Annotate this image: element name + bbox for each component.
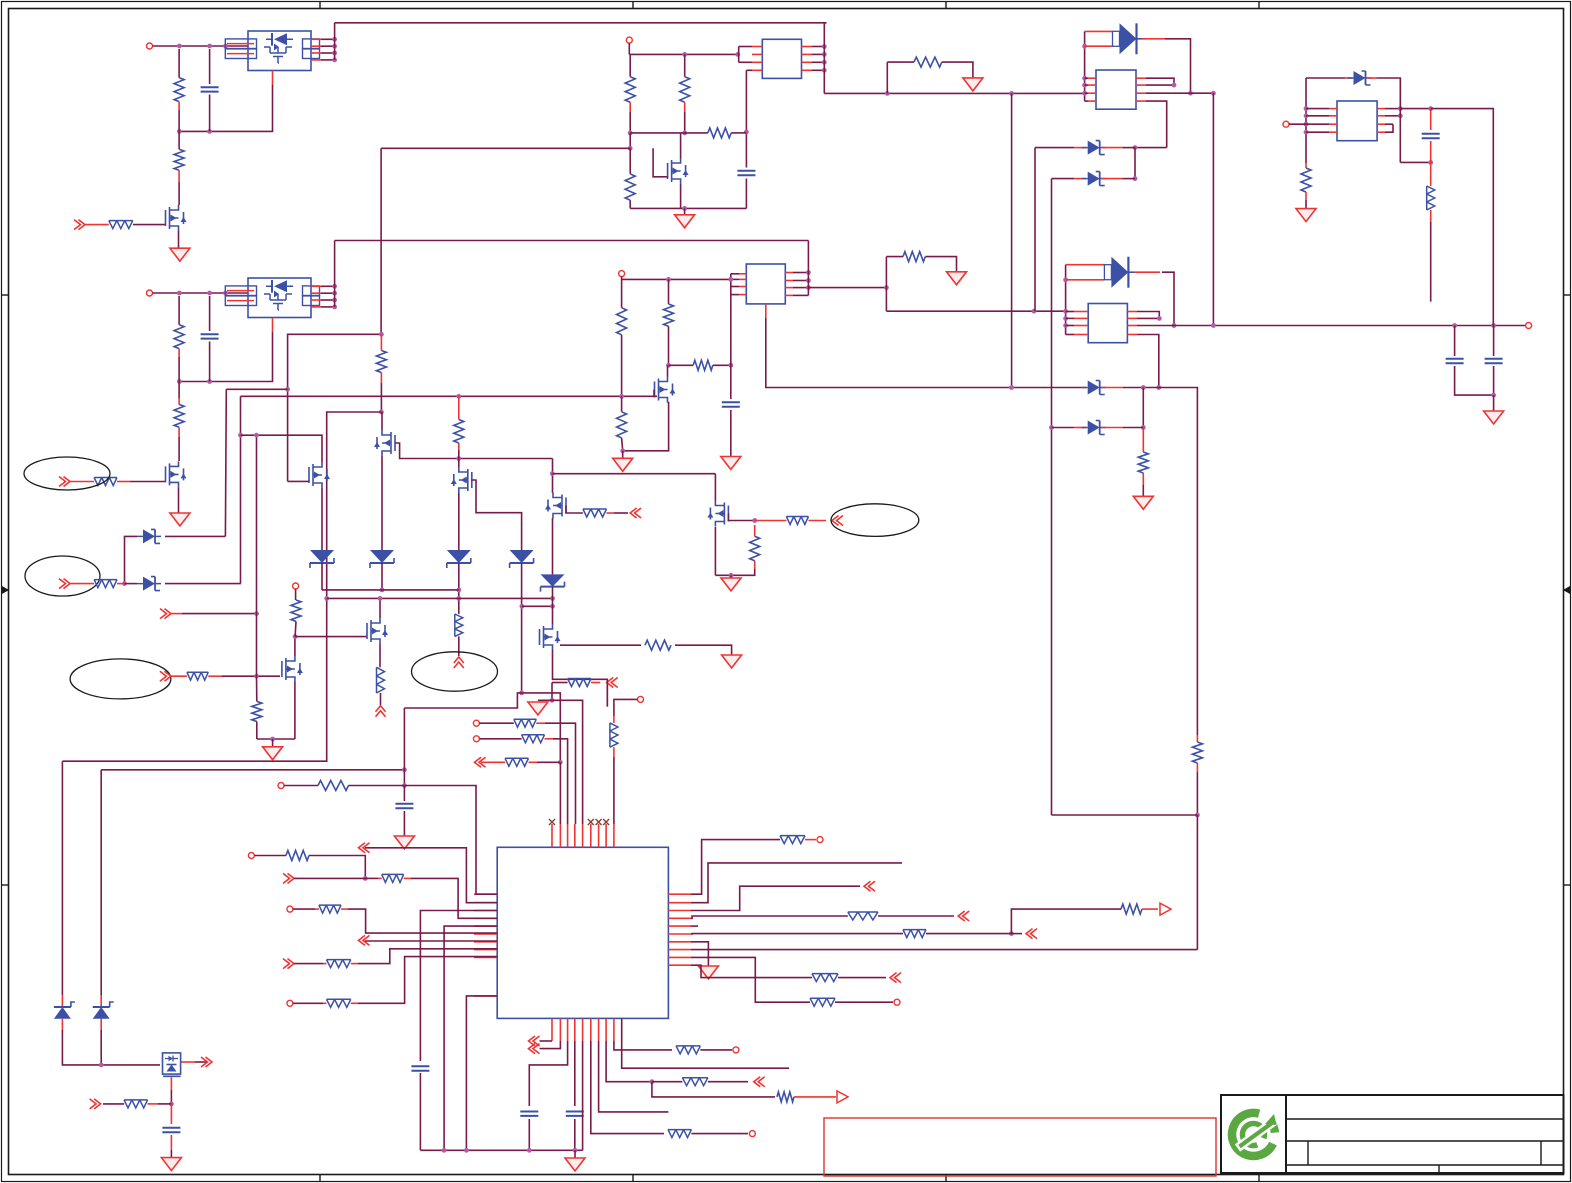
ground QA <box>721 578 741 591</box>
R33 pin l <box>481 761 505 763</box>
T1 right pin 4 <box>802 69 813 71</box>
junction <box>1304 130 1309 135</box>
resistor R34 <box>514 719 537 727</box>
wire Q7 drain <box>241 435 323 462</box>
resistor R27 <box>187 672 208 680</box>
junction <box>207 291 212 296</box>
wire T5 out3 <box>1385 123 1393 125</box>
wire Db cathode <box>165 583 241 585</box>
wire to U3 l9 <box>358 957 497 1004</box>
Dc pin bottom <box>61 1019 63 1030</box>
wire gnd out <box>1493 395 1495 411</box>
wire T1 right pin 2 <box>812 53 824 55</box>
capacitor C12 <box>162 1128 180 1132</box>
frame tick left 3 <box>2 884 9 886</box>
junction <box>1398 106 1403 111</box>
wire Q2 gate <box>130 481 165 483</box>
wire T4 out4 <box>1137 335 1159 388</box>
junction U1 pin 4 <box>332 58 337 63</box>
schottky Da <box>143 529 155 543</box>
resistor R30 <box>252 701 262 721</box>
wire C4 bottom <box>730 410 732 457</box>
wire T3 out3 <box>1146 92 1213 94</box>
junction <box>177 379 182 384</box>
wire b10 <box>614 1041 672 1050</box>
D4 anode pin b <box>1066 279 1105 281</box>
wire T4 left pin 2 <box>1066 317 1074 319</box>
wire P2 to package <box>153 292 249 294</box>
junction <box>324 596 329 601</box>
mosfet Q11 <box>367 618 385 644</box>
junction <box>1049 425 1054 430</box>
junction <box>550 596 555 601</box>
wire b6 <box>591 1041 664 1134</box>
wire Q4 drain <box>667 365 669 376</box>
U3 left pin 7 <box>474 941 497 943</box>
wire top1 <box>552 682 568 684</box>
junction <box>380 588 385 593</box>
wire T2 right pin 4 <box>793 294 808 296</box>
wire T2 left pin 2 <box>731 278 739 280</box>
wire R21 to Q6 <box>458 450 460 467</box>
R43 pin <box>805 839 816 841</box>
wire QA source <box>714 527 716 575</box>
wire feedback elbow <box>288 334 382 481</box>
junction <box>1428 106 1433 111</box>
wire snubber2 right <box>925 257 956 272</box>
R5 pin top <box>178 398 180 404</box>
wire gate-feed drop <box>380 148 382 334</box>
wire elbow branch <box>226 388 287 390</box>
U3 left pin 1 <box>474 893 497 895</box>
mosfet Q10 <box>282 656 300 682</box>
junction U2 pin 4 <box>332 305 337 310</box>
T3 left pin 1 <box>1088 77 1096 79</box>
wire P11 <box>254 855 286 857</box>
title block div 1 <box>1307 1141 1309 1165</box>
junction <box>628 131 633 136</box>
wire U3 r8 long <box>691 949 1197 951</box>
wire row y208 <box>630 207 746 209</box>
junction <box>682 206 687 211</box>
dual-mosfet package U2 <box>248 278 311 318</box>
wire T1 pin4 drop <box>745 70 747 167</box>
wire R8 top <box>629 54 631 76</box>
T1 left pin 1 <box>752 46 762 48</box>
R40 pin l <box>315 908 319 910</box>
wire Q6 gate <box>472 480 522 550</box>
resistor R53 <box>124 1100 148 1108</box>
wire V1011 drop <box>1011 93 1013 387</box>
C12 pin bottom <box>170 1135 172 1150</box>
wire left4 <box>294 963 323 965</box>
wire Q4 gate <box>653 390 655 397</box>
junction <box>177 291 182 296</box>
title block div 2 <box>1540 1141 1542 1165</box>
wire U3 r2 <box>691 863 902 903</box>
resistor R28 <box>291 600 301 621</box>
wire snubber2 top <box>886 256 903 258</box>
resistor R14 <box>664 304 674 326</box>
wire U1 return <box>179 85 272 131</box>
U3 top pin 7 <box>598 824 600 847</box>
T1 left pin 3 <box>752 61 762 63</box>
junction elbow <box>285 387 290 392</box>
wire R9 top <box>684 54 686 76</box>
stem P4 <box>621 277 623 280</box>
wire b6 b <box>691 1133 748 1135</box>
ground C8 <box>394 836 414 849</box>
R31 pin top <box>1196 735 1198 742</box>
bus block1 left <box>1084 31 1086 101</box>
wire b3 <box>529 1041 567 1106</box>
resistor R44 <box>848 912 878 920</box>
wire D7 cathode <box>1376 78 1400 109</box>
capacitor C9 <box>411 1066 429 1070</box>
resistor R20 <box>376 351 386 373</box>
wire net jog path <box>404 693 560 762</box>
frame tick bottom 2 <box>632 1174 634 1181</box>
wire U3 r4 <box>691 916 848 918</box>
wire gnd stem Q4 <box>622 451 624 459</box>
frame tick top 3 <box>945 2 947 9</box>
junction <box>1141 385 1146 390</box>
frame tick right 1 <box>1563 294 1570 296</box>
zener D6 <box>1088 421 1100 435</box>
terminal P16 <box>749 1131 755 1137</box>
resistor R42 <box>327 999 351 1007</box>
wire row 589 <box>322 589 459 591</box>
wire U1 out 2 <box>321 45 335 47</box>
wire P4 row <box>622 278 731 280</box>
R5 pin <box>178 427 180 437</box>
wire Q7 gate <box>288 480 309 482</box>
junction <box>520 604 525 609</box>
R27 pin right <box>208 675 222 677</box>
wire b11 <box>622 1018 789 1068</box>
U3 bottom pin 6 <box>590 1018 592 1041</box>
wire z4c <box>1123 427 1144 429</box>
junction <box>1063 323 1068 328</box>
resistor R3 <box>109 221 133 229</box>
bus T1 left <box>738 47 740 63</box>
wire D10 down <box>521 563 523 693</box>
wire to Q10 gate <box>222 675 280 677</box>
mosfet Q9 <box>540 624 558 650</box>
terminal P14 <box>817 837 823 843</box>
wire z1c <box>1122 147 1135 149</box>
U3 bottom pin 7 <box>598 1018 600 1041</box>
wire U3 r6 <box>691 933 903 935</box>
wire snubber2 bottom <box>886 310 1065 312</box>
title block outline <box>1286 1095 1564 1173</box>
net chevron r4 <box>958 911 969 921</box>
wire net C <box>824 92 1084 94</box>
R26 pin top <box>754 525 756 536</box>
wire row y133 <box>630 132 708 134</box>
terminal P4 <box>619 271 625 277</box>
terminal P7 <box>473 720 479 726</box>
junction U1 pin 2 <box>332 44 337 49</box>
wire Q4 source <box>623 403 669 451</box>
R27 pin left <box>171 675 187 677</box>
ground zener2 <box>1133 496 1153 509</box>
U1 right pin 3 <box>311 52 321 54</box>
junction T1 out 1 <box>822 44 827 49</box>
capacitor C2 <box>201 334 219 338</box>
net input chevron 6 <box>59 579 70 589</box>
R51 pin <box>794 1096 836 1098</box>
junction <box>735 52 740 57</box>
title block line 3 <box>1286 1164 1564 1166</box>
wire T5 right bus <box>1399 78 1401 162</box>
T2 left pin 2 <box>739 278 746 280</box>
wire b8 b <box>708 1081 748 1083</box>
resistor R6 <box>94 478 117 486</box>
resistor R48 <box>812 974 838 982</box>
junction U2 pin 2 <box>332 291 337 296</box>
junction <box>884 285 889 290</box>
terminal P10 <box>278 783 284 789</box>
wire Q8 drain col <box>552 459 554 493</box>
bus T5 left <box>1305 78 1307 163</box>
QB pin down <box>170 1077 172 1090</box>
junction <box>464 1148 469 1153</box>
frame tick top 2 <box>632 2 634 9</box>
resistor R25 <box>786 517 808 525</box>
wire Q5 source <box>381 456 383 550</box>
wire pin2 riser <box>559 762 561 824</box>
wire b4 <box>574 1041 576 1106</box>
wire T1 right pin 3 <box>812 61 824 63</box>
wire stray 607 <box>606 679 608 706</box>
junction <box>99 1063 104 1068</box>
resistor R7 <box>914 57 942 67</box>
T3 left pin 4 <box>1088 100 1096 102</box>
capacitor C6 <box>1485 359 1503 363</box>
mosfet Q4 <box>655 377 673 403</box>
wire pin4 riser <box>545 723 576 824</box>
junction <box>729 573 734 578</box>
resistor R46 <box>1121 904 1142 914</box>
wire R2 top <box>178 131 180 149</box>
net chevron left3 <box>359 935 370 945</box>
terminal P15 <box>894 999 900 1005</box>
pin <box>1142 473 1144 485</box>
junction <box>378 596 383 601</box>
terminal OUT <box>1526 323 1532 329</box>
junction <box>1082 76 1087 81</box>
wire left2 <box>294 877 365 879</box>
terminal P17 <box>733 1047 739 1053</box>
U3 top pin 5 <box>582 824 584 847</box>
ellipse net label 3 <box>70 659 171 699</box>
U3 top pin 6 <box>590 824 592 847</box>
wire to U3 l4 <box>411 878 497 918</box>
wire V62 <box>61 761 63 995</box>
wire pin9 riser <box>613 757 615 824</box>
resistor R41 <box>327 960 351 968</box>
capacitor C4 <box>722 402 740 406</box>
U3 left pin 5 <box>474 925 497 927</box>
wire R14 top <box>668 279 670 304</box>
R53 pin <box>148 1103 158 1105</box>
junction <box>169 1102 174 1107</box>
wire V2 drop <box>224 389 227 536</box>
wire V101 <box>100 770 102 995</box>
junction <box>666 363 671 368</box>
frame tick bottom 3 <box>945 1174 947 1181</box>
wire QA gate <box>728 514 754 521</box>
T1 right pin 2 <box>802 53 813 55</box>
U2 right pin 3 <box>311 299 321 301</box>
wire z3c <box>1123 387 1159 389</box>
junction <box>1452 323 1457 328</box>
junction <box>666 277 671 282</box>
wire P5 <box>1289 123 1306 125</box>
Z3 cathode pin <box>1101 387 1123 389</box>
wire Q8 gate b <box>614 512 628 514</box>
junction <box>1141 425 1146 430</box>
ellipse net label 6 <box>25 556 100 596</box>
ground top <box>528 702 548 715</box>
terminal P1 <box>147 43 153 49</box>
wire V1050 long <box>1051 179 1053 815</box>
U3 left pin 8 <box>474 949 497 951</box>
wire T5 left 4 <box>1306 131 1329 133</box>
T2 right pin 1 <box>785 272 793 274</box>
wire pin5 riser <box>552 700 583 824</box>
Z4 anode pin <box>1074 427 1086 429</box>
junction <box>254 611 259 616</box>
junction <box>1156 385 1161 390</box>
junction <box>1211 91 1216 96</box>
zener D3 <box>1088 172 1100 186</box>
resistor R19 <box>1301 168 1311 192</box>
junction <box>1172 323 1177 328</box>
D4 anode pin a <box>1066 264 1105 266</box>
diode D7 <box>1354 71 1366 85</box>
wire gnd stem QA <box>730 575 732 578</box>
resistor R5 <box>174 404 184 427</box>
R54 pin r <box>117 583 125 585</box>
wire U3 r7 <box>691 942 708 966</box>
wire R18 down <box>1430 222 1432 302</box>
R20 pin bottom <box>380 373 382 384</box>
junction <box>573 1148 578 1153</box>
wire bl3 <box>158 1103 171 1105</box>
frame tick left 1 <box>2 294 9 296</box>
net chevron b2 <box>529 1044 540 1054</box>
wire to U3 l8 <box>358 949 497 964</box>
tvs diode D9 <box>447 550 471 563</box>
wire R14 bottom <box>668 326 670 365</box>
wire net OUT <box>1137 325 1526 327</box>
D7 cathode pin <box>1367 77 1377 79</box>
wire C6 bottom <box>1493 366 1495 395</box>
resistor R15 <box>693 360 713 370</box>
U3 right pin 6 <box>668 933 691 935</box>
tvs diode D8 <box>370 550 394 563</box>
wire Da cathode <box>165 535 225 537</box>
net chevron left1 <box>359 843 370 853</box>
T3 right pin 4 <box>1136 100 1146 102</box>
net chevron left4 <box>283 959 294 969</box>
net chevron left2 <box>283 873 294 883</box>
power diode D4 <box>1111 257 1128 288</box>
capacitor C11 <box>566 1112 584 1116</box>
wire to U3 l6 <box>348 909 497 933</box>
resistor R22 <box>455 614 463 636</box>
U3 right pin 8 <box>668 949 691 951</box>
U3 bottom pin 8 <box>605 1018 607 1041</box>
wire between zeners2 <box>1142 388 1144 428</box>
wire T3 out1 <box>1146 78 1174 85</box>
junction <box>402 783 407 788</box>
junction <box>207 44 212 49</box>
junction <box>1063 309 1068 314</box>
wire snubber1 top <box>887 61 914 63</box>
wire Dd down <box>100 1030 102 1065</box>
dual-mosfet package U1 <box>248 31 311 71</box>
wire P10 <box>284 785 318 787</box>
junction <box>1428 160 1433 165</box>
U2 bottom pin <box>272 318 274 333</box>
wire C6 top <box>1493 326 1495 357</box>
wire D11 down <box>321 563 323 590</box>
junction <box>1063 316 1068 321</box>
QB source bar <box>163 1075 181 1077</box>
U3 right pin 9 <box>668 956 691 958</box>
wire T4 out2 <box>1137 317 1159 319</box>
T5 left pin 1 <box>1329 108 1337 110</box>
wire C8 bottom <box>403 811 405 836</box>
no-connect X <box>596 819 602 825</box>
terminal P9 <box>638 696 644 702</box>
T5 right pin 3 <box>1377 123 1385 125</box>
wire D9 down <box>458 563 460 614</box>
wire bl2 <box>103 1103 124 1105</box>
T2 right pin 4 <box>785 294 793 296</box>
resistor R31 <box>1192 742 1202 763</box>
junction <box>1195 813 1200 818</box>
junction <box>1304 122 1309 127</box>
no-connect X <box>603 819 609 825</box>
wire T3 out2 <box>1146 84 1174 86</box>
resistor R13 <box>617 308 627 335</box>
wire U3 r10 <box>691 965 812 977</box>
ground Q10 <box>263 747 283 760</box>
junction <box>752 518 757 523</box>
wire r6 branch <box>1011 909 1121 934</box>
junction <box>1009 385 1014 390</box>
U3 top pin 2 <box>559 824 561 847</box>
chev7 pin <box>171 613 182 615</box>
wire T4 left pin 1 <box>1066 311 1074 313</box>
junction <box>558 760 563 765</box>
T3 left pin 2 <box>1088 84 1096 86</box>
net input chevron 7 <box>160 609 171 619</box>
junction <box>293 634 298 639</box>
wire C10 bottom <box>528 1119 530 1150</box>
net chevron top1 <box>607 678 618 688</box>
junction <box>650 1079 655 1084</box>
wire T2 left pin 3 <box>731 286 739 288</box>
wire Q3 gate <box>653 148 668 177</box>
stem P6 <box>295 589 297 600</box>
wire b7 <box>599 1041 669 1112</box>
R25 pin right <box>809 520 827 522</box>
